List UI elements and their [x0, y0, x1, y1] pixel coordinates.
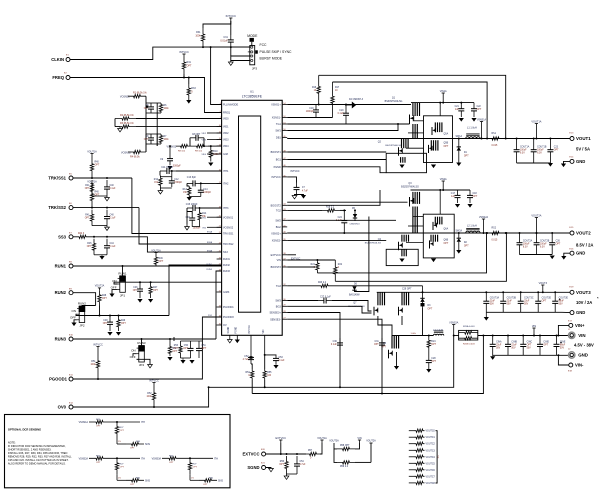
svg-text:OPT: OPT [130, 448, 135, 450]
svg-text:46: 46 [283, 165, 285, 167]
wire vout3 rail [377, 291, 570, 293]
capacitor CIN D [539, 336, 541, 345]
resistor RS1 sense [483, 137, 508, 140]
svg-text:COUT2A: COUT2A [523, 240, 533, 243]
pin ITH1 (left, 15) [217, 170, 222, 172]
resistor R ss3 series [73, 235, 92, 238]
resistor R_freq OPT [182, 57, 185, 74]
svg-text:R14: R14 [202, 213, 207, 215]
svg-text:C48: C48 [103, 320, 108, 322]
wire ov0 row [73, 388, 209, 408]
svg-text:OPT: OPT [159, 261, 164, 263]
wire vid0 row [136, 118, 222, 120]
svg-text:L3 2.2uH: L3 2.2uH [433, 329, 443, 332]
svg-text:22uF: 22uF [511, 345, 517, 347]
connector J_TRK/SS2 [69, 206, 73, 210]
power flag INTVCC pgood [96, 346, 99, 348]
svg-text:0.01uF: 0.01uF [220, 40, 228, 43]
resistor R57 extvcc series [306, 452, 320, 455]
wire SW1 row [287, 124, 398, 131]
pin ITH2 (left, 17) [217, 182, 222, 184]
svg-text:0.1uF: 0.1uF [331, 344, 337, 346]
svg-text:68uF: 68uF [559, 301, 565, 303]
svg-text:45: 45 [283, 175, 285, 177]
ground C9 [167, 166, 172, 170]
wire sense3- row [287, 319, 382, 393]
resistor R1 feedback [128, 95, 146, 98]
svg-text:R56: R56 [280, 461, 285, 463]
svg-text:OPT: OPT [543, 345, 548, 347]
power flag INTVCC ov [152, 382, 155, 384]
wire sense3+ row [287, 313, 340, 388]
pin RUN3 (left, 28) [217, 270, 222, 272]
svg-text:SW3: SW3 [275, 300, 281, 303]
pin VID1 (left, 10) [217, 126, 222, 128]
capacitor C50 [190, 341, 192, 348]
svg-text:VOUT2A: VOUT2A [531, 214, 541, 217]
resistor R13 ith2 [188, 186, 191, 197]
svg-text:0.1uF: 0.1uF [279, 360, 285, 362]
svg-text:R2 66.5k 1%: R2 66.5k 1% [120, 114, 135, 117]
pin XSNS1- (right, 52) [282, 117, 287, 119]
wire vosns3 to IC [208, 145, 222, 147]
svg-text:COUT3C: COUT3C [524, 298, 534, 300]
svg-text:C20: C20 [339, 110, 344, 112]
svg-text:L1 1.0uH: L1 1.0uH [467, 127, 477, 130]
svg-text:50V: 50V [560, 348, 565, 350]
jumper JP1 RUN1 [120, 276, 126, 293]
svg-text:VIN2A: VIN2A [440, 178, 447, 181]
svg-text:VIN: VIN [532, 324, 536, 328]
resistor ladder VOUTC8 [409, 482, 415, 484]
svg-text:RS1: RS1 [492, 133, 497, 135]
svg-text:DB1: DB1 [276, 137, 281, 140]
svg-text:OPT: OPT [477, 109, 482, 111]
svg-text:OPT: OPT [556, 244, 561, 246]
wire q1 source to box [413, 120, 424, 122]
svg-text:35: 35 [283, 265, 285, 267]
wire intvcc decouple cluster [173, 337, 175, 341]
svg-text:VOUT1A: VOUT1A [531, 120, 541, 123]
pin ILIM3 (left, 31) [217, 291, 222, 293]
resistor Rdcr2 VSNS2A [115, 458, 118, 474]
pin XSNS1+ (right, 54) [282, 104, 287, 106]
svg-text:VOUTC7: VOUTC7 [426, 476, 436, 478]
svg-text:COUT3D: COUT3D [542, 298, 552, 300]
svg-text:OPT: OPT [542, 301, 547, 303]
svg-text:IF INDUCTOR DCR SENSING IS IMP: IF INDUCTOR DCR SENSING IS IMPLEMENTED, [8, 444, 66, 448]
svg-text:JP3: JP3 [252, 67, 258, 71]
wire TG2 to gate2 [287, 190, 380, 205]
resistor R8 [176, 144, 192, 147]
svg-text:BSZ097N04LSG: BSZ097N04LSG [401, 185, 419, 188]
wire vid4 row ext [207, 153, 222, 155]
resistor ladder VOUTC7 [409, 475, 415, 477]
wire ith1 loop [159, 170, 161, 172]
svg-text:29: 29 [283, 305, 285, 307]
svg-text:LTC3859EFE: LTC3859EFE [242, 94, 263, 98]
pin SW3 (right, 30) [282, 300, 287, 302]
svg-text:SHORT RSENSE1, 2 AND RSENSE3.: SHORT RSENSE1, 2 AND RSENSE3. [8, 448, 52, 452]
svg-text:VOSNS2: VOSNS2 [223, 226, 234, 229]
svg-text:COUT2B: COUT2B [540, 241, 550, 243]
svg-text:R44 0: R44 0 [78, 233, 85, 235]
svg-text:Q5B: Q5B [444, 143, 449, 145]
svg-text:SENSE3+: SENSE3+ [269, 312, 281, 315]
wire gnd1 [564, 161, 571, 163]
svg-text:RS2: RS2 [492, 227, 497, 229]
ground cout1 [548, 163, 553, 167]
wire divider left bus [114, 119, 116, 127]
svg-text:ITH: ITH [141, 421, 145, 424]
wire d6 hook [355, 217, 369, 292]
svg-text:C28: C28 [431, 358, 436, 360]
svg-text:BSZ097N04LSG: BSZ097N04LSG [385, 145, 402, 147]
resistor R_mode pullup [201, 28, 204, 47]
connector J_GND big [569, 352, 575, 358]
jumper JP4 RUN3 [139, 346, 145, 363]
svg-text:VOUTC0: VOUTC0 [426, 431, 436, 433]
svg-text:ILIM3: ILIM3 [223, 291, 230, 294]
pin SENSE3- (right, 27) [282, 318, 287, 320]
power flag VOUT1A [535, 123, 538, 125]
svg-text:38: 38 [283, 253, 285, 255]
wire boost3 row [287, 266, 315, 268]
capacitor CIN C [522, 336, 524, 345]
capacitor C run2 [109, 316, 111, 323]
svg-text:ALSO REFER TO DEMO MANUAL FOR: ALSO REFER TO DEMO MANUAL FOR DETAILS. [8, 462, 66, 466]
resistor Rdcr2 VSNS1A [115, 422, 118, 438]
resistor R run3 pulldown [168, 344, 171, 356]
svg-text:C22: C22 [477, 106, 482, 108]
svg-text:VOUT3: VOUT3 [576, 290, 591, 295]
pin FREQ (left, 6) [217, 112, 222, 114]
connector J_GND2 [570, 251, 574, 255]
ground q5 source [431, 165, 436, 169]
svg-text:COUT3E: COUT3E [559, 298, 569, 300]
svg-text:33: 33 [219, 305, 221, 307]
svg-text:VOUTC6: VOUTC6 [426, 470, 436, 472]
svg-text:0.015: 0.015 [492, 145, 498, 147]
inductor L3 [433, 334, 443, 335]
ground sgnd [269, 468, 274, 471]
wire sense1+ top run [333, 82, 488, 139]
ground C21 [459, 118, 464, 122]
capacitor C20 boost [345, 105, 347, 114]
pin SENSE3+ (right, 28) [282, 312, 287, 314]
ground D2 [456, 250, 461, 254]
power flag EXTVCC [279, 439, 282, 441]
svg-text:C12: C12 [174, 179, 179, 181]
capacitor CIN B [507, 336, 509, 345]
wire cout2 gnd bus [520, 254, 553, 256]
svg-text:RUN2: RUN2 [223, 264, 230, 267]
wire sw3 node [422, 308, 424, 336]
svg-text:INTVCC: INTVCC [249, 325, 251, 334]
wire xsns2+ run [317, 233, 486, 273]
resistor R pullup TRK/SS1 [90, 157, 93, 179]
wire q1 drain top [411, 102, 474, 104]
pin PGOODX (left, 34) [217, 316, 222, 318]
pin DB1 (right, 49) [282, 137, 287, 139]
svg-text:R10: R10 [213, 151, 218, 153]
resistor R56 extvcc [285, 456, 288, 474]
svg-text:0.1uF: 0.1uF [338, 113, 344, 115]
wire vin- tie [558, 355, 568, 365]
svg-text:VID3: VID3 [223, 139, 229, 142]
svg-text:RUN2: RUN2 [55, 290, 67, 295]
resistor R soft TRK/SS2 [90, 210, 93, 226]
svg-text:RUN3: RUN3 [55, 337, 67, 342]
wire q5a drain vertical [439, 103, 441, 116]
svg-text:VID4: VID4 [223, 145, 229, 148]
svg-text:OPT: OPT [95, 165, 100, 167]
svg-text:OPT: OPT [173, 348, 178, 350]
connector J_VINP [569, 323, 573, 327]
svg-text:R4 66.5k: R4 66.5k [130, 156, 140, 159]
pin PGOOD1 (left, 33) [217, 306, 222, 308]
pin BOOST2 (right, 44) [282, 204, 287, 206]
capacitor COUT1B [533, 139, 535, 150]
svg-text:COUT1A: COUT1A [520, 146, 530, 149]
svg-text:TRK/SS2: TRK/SS2 [223, 243, 234, 246]
svg-text:JP1: JP1 [120, 293, 126, 297]
wire TRK/SS2 row [73, 207, 139, 209]
pin BG2 (right, 41) [282, 226, 287, 228]
capacitor C soft ss3 [106, 239, 108, 246]
resistor Rdcr2 VSNS3A [188, 458, 191, 474]
capacitor C soft TRK/SS2 [106, 210, 108, 217]
svg-text:C50: C50 [184, 345, 189, 347]
resistor R_clk freq set [187, 84, 190, 99]
svg-text:RUN1: RUN1 [207, 264, 213, 266]
svg-text:OPT: OPT [102, 298, 107, 300]
connector J_TRK/SS1 [69, 176, 73, 180]
svg-text:BG2: BG2 [276, 226, 282, 229]
connector J_RUN3 [69, 337, 73, 341]
svg-text:OPT: OPT [95, 195, 100, 197]
svg-text:100k: 100k [147, 396, 153, 398]
svg-text:R17: R17 [335, 87, 340, 89]
transistor Q6 box2 upper [423, 214, 454, 233]
svg-text:SS2A: SS2A [207, 241, 213, 244]
transistor Q5A [434, 122, 436, 132]
svg-text:R58 OPT: R58 OPT [340, 445, 350, 447]
wire q7 source to sw3 [378, 316, 392, 336]
svg-text:VOUT2A: VOUT2A [95, 285, 105, 288]
pin TG3 (right, 32) [282, 285, 287, 287]
svg-text:OPT: OPT [144, 108, 149, 110]
svg-text:47: 47 [283, 158, 285, 160]
svg-text:BOOST1: BOOST1 [271, 151, 282, 154]
svg-text:50V: 50V [496, 348, 501, 350]
wire dcr bottom VSNS2A [116, 474, 118, 480]
svg-text:PLLIN/MODE: PLLIN/MODE [223, 104, 238, 107]
svg-text:R40: R40 [95, 192, 100, 194]
pin VOSNS1 (left, 20) [217, 216, 222, 218]
wire boost1 row [287, 151, 386, 153]
svg-text:R49: R49 [121, 320, 126, 322]
svg-text:41: 41 [283, 225, 285, 227]
wire xsns1- row [287, 117, 332, 119]
diode D3 [422, 286, 424, 293]
svg-text:OPT: OPT [96, 426, 101, 428]
svg-text:EXTVCC: EXTVCC [271, 254, 281, 257]
svg-text:OPT: OPT [187, 65, 192, 68]
transistor Q8 boost main [401, 292, 403, 305]
svg-text:D4 CMDSH-3: D4 CMDSH-3 [349, 99, 364, 101]
svg-text:COUT3B: COUT3B [507, 298, 517, 300]
wire fb bus [145, 96, 147, 152]
connector J_VIN big [569, 332, 575, 338]
svg-text:6.3V: 6.3V [537, 153, 542, 155]
wire q3 source to box [413, 216, 424, 218]
wire extvcc pin row [287, 254, 296, 256]
svg-text:VSNS2A: VSNS2A [79, 457, 89, 460]
power flag VOUT3 [541, 284, 544, 286]
svg-text:CIND: CIND [543, 342, 549, 344]
resistor ladder VOUTC2 [409, 443, 415, 445]
svg-text:VSNS3A: VSNS3A [152, 457, 162, 460]
wire q2 source to box [406, 147, 424, 149]
capacitor C21 input [460, 103, 462, 109]
diode D1 schottky [458, 139, 460, 147]
svg-text:C29 OPT: C29 OPT [402, 289, 412, 291]
pin BOOST1 (right, 48) [282, 151, 287, 153]
svg-text:50V: 50V [524, 304, 529, 306]
svg-text:C21: C21 [455, 106, 460, 108]
svg-text:C25 AND C26. INSTALL C22 PUTTE: C25 AND C26. INSTALL C22 PUTTED AS IN SH… [8, 458, 69, 462]
capacitor C_mode [230, 35, 232, 40]
svg-text:50: 50 [283, 129, 285, 131]
capacitor C22 input OPT [473, 103, 475, 109]
pin VIN (right, 37) [282, 259, 287, 261]
svg-text:VSNS1A: VSNS1A [477, 118, 487, 121]
wire PLLIN to IC [211, 47, 222, 104]
op-amp U1 LTC3853EUJ body [222, 100, 283, 335]
svg-text:C52: C52 [244, 356, 249, 358]
svg-text:R40: R40 [95, 162, 100, 164]
svg-text:FREQ: FREQ [223, 112, 230, 115]
svg-text:OPT: OPT [120, 466, 125, 468]
capacitor C9 330pF [169, 154, 171, 159]
resistor R run1b [149, 282, 152, 298]
pin EXTVCC (right, 38) [282, 254, 287, 256]
wire q6a drain vertical [439, 190, 441, 214]
svg-text:TRK/SS2: TRK/SS2 [48, 205, 66, 210]
wire vid1 row [136, 126, 222, 128]
resistor R14 ith3 [198, 212, 201, 222]
capacitor C16 ith3 [191, 214, 193, 218]
svg-text:OPT: OPT [193, 466, 198, 468]
ground q2 source [399, 165, 404, 169]
connector J_RUN1 [69, 264, 73, 268]
svg-text:GND: GND [578, 353, 588, 358]
svg-text:1500pF: 1500pF [174, 182, 182, 184]
wire intvcc pin to cap [287, 177, 296, 183]
ground c7 arrow [297, 194, 304, 197]
svg-text:RUN3: RUN3 [223, 270, 230, 273]
wire bg2 row [287, 239, 386, 241]
resistor R_fb 100k [159, 103, 162, 113]
svg-text:R23 2.2: R23 2.2 [318, 282, 327, 284]
capacitor COUT1C OPT [549, 139, 551, 150]
svg-text:VOUT1A: VOUT1A [87, 150, 97, 153]
wire gnd2 [564, 253, 570, 256]
pin VOSNS2 (left, 21) [217, 226, 222, 228]
svg-text:R55: R55 [267, 372, 272, 374]
inductor L1 [466, 137, 480, 139]
power flag VSNS1A [480, 121, 483, 123]
svg-text:VOUT2A: VOUT2A [366, 439, 376, 442]
svg-text:GND: GND [576, 310, 585, 315]
svg-text:EXTVCC: EXTVCC [276, 436, 287, 440]
wire dcr VSNS3A [183, 457, 213, 459]
svg-text:TG3: TG3 [276, 285, 281, 288]
svg-text:TRK/SS1: TRK/SS1 [48, 176, 66, 181]
svg-text:68uF: 68uF [560, 345, 566, 347]
svg-text:SGND: SGND [228, 327, 230, 334]
svg-text:VOUTC4: VOUTC4 [426, 457, 436, 459]
svg-text:R46: R46 [159, 258, 164, 260]
wire sense3 B run [252, 336, 483, 394]
ground jp1 [109, 294, 114, 298]
power flag VOUT TRK/SS2 [90, 183, 93, 185]
ground PGND [235, 340, 240, 344]
wire run1 jumper bot gnd [112, 290, 118, 294]
connector J_PGOOD1 [69, 377, 73, 381]
svg-text:C51: C51 [202, 345, 207, 347]
svg-text:VID1: VID1 [223, 126, 229, 129]
diode D2 schottky [458, 233, 460, 238]
svg-text:1000pF: 1000pF [193, 228, 201, 230]
svg-text:PGOODX: PGOODX [223, 316, 234, 319]
connector J_SGND [262, 466, 266, 470]
pin VID4 (left, 13) [217, 145, 222, 147]
svg-text:OPT: OPT [103, 323, 108, 325]
resistor R ov pullup [152, 386, 155, 408]
svg-text:R8 10k: R8 10k [178, 151, 186, 153]
svg-text:OPT: OPT [153, 290, 158, 292]
svg-text:PULSE SKIP / SYNC: PULSE SKIP / SYNC [260, 50, 293, 54]
ground c53 [273, 365, 278, 369]
svg-text:TRK/SS1: TRK/SS1 [223, 233, 234, 236]
svg-text:OFF: OFF [111, 285, 117, 289]
svg-text:EXTVCC: EXTVCC [243, 452, 260, 457]
svg-text:VOUTC5: VOUTC5 [426, 463, 436, 465]
resistor R4 feedback2 [128, 150, 146, 153]
svg-text:VID0: VID0 [223, 118, 229, 121]
resistor ladder VOUTC5 [409, 462, 415, 464]
svg-text:50V: 50V [490, 304, 495, 306]
svg-text:INSTALL R26, R27, R30, R34, R3: INSTALL R26, R27, R30, R34, R35 AND R36,… [8, 451, 68, 455]
wire dcr VSNS2A [110, 457, 140, 459]
svg-text:0.015: 0.015 [492, 239, 498, 241]
wire xsns1+ row [287, 104, 411, 106]
pin RUN2 (left, 27) [217, 264, 222, 266]
wire dcr bottom VSNS1A [116, 438, 118, 444]
svg-text:FREQ: FREQ [52, 75, 64, 80]
svg-text:R9 10k: R9 10k [195, 151, 203, 153]
svg-text:RUN1: RUN1 [118, 271, 126, 275]
resistor R run1 pullup [154, 256, 157, 267]
pin VID2 (left, 11) [217, 132, 222, 134]
svg-text:6: 6 [220, 111, 221, 113]
svg-text:VIN-: VIN- [575, 363, 584, 368]
resistor R9 [192, 144, 208, 147]
resistor Rdcr VSNS1A [89, 420, 110, 423]
svg-text:22uF: 22uF [524, 301, 530, 303]
